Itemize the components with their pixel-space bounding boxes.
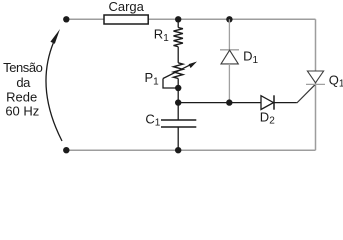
label Tensão da Rede 60 Hz	[3, 60, 42, 118]
node top-left	[63, 16, 69, 22]
wire gate line from junction to D2	[178, 102, 262, 104]
wire P1 wiper return bracket	[163, 79, 178, 89]
wire gate diagonal to Q1	[297, 84, 316, 103]
wire C1 top lead	[177, 103, 179, 120]
wire P1 bottom lead	[177, 79, 179, 103]
diode D1 triangle	[221, 50, 238, 64]
capacitor C1	[161, 120, 196, 127]
node top of D1 branch	[226, 16, 232, 22]
diode D1 cathode bar	[220, 49, 239, 51]
AC source arrow (Tensão da Rede)	[46, 29, 62, 141]
wire C1 bottom lead	[177, 127, 179, 150]
node bottom-left	[63, 147, 69, 153]
svg-text:da: da	[16, 75, 31, 90]
svg-text:D2: D2	[260, 110, 275, 127]
svg-text:60 Hz: 60 Hz	[5, 103, 39, 118]
potentiometer P1 wiper arrow	[163, 62, 197, 79]
wire top rail	[66, 18, 315, 20]
thyristor Q1 cathode bar	[306, 83, 325, 85]
wire right edge (Q1 branch)	[315, 19, 317, 150]
svg-text:Carga: Carga	[108, 0, 144, 14]
wire D1 top lead	[228, 19, 230, 50]
load resistor Carga (box)	[104, 15, 148, 24]
svg-text:Tensão: Tensão	[3, 60, 42, 75]
wire R1 branch top lead	[177, 19, 179, 27]
thyristor Q1 triangle	[307, 71, 323, 83]
wire D1 bottom lead	[228, 64, 230, 103]
wire bottom rail	[66, 149, 315, 151]
wire between R1 and P1	[177, 47, 179, 63]
svg-text:P1: P1	[145, 70, 160, 87]
node D1 bottom junction	[226, 99, 232, 105]
potentiometer P1 (zigzag)	[174, 63, 183, 79]
svg-text:C1: C1	[145, 111, 160, 128]
diode D2 cathode bar	[273, 95, 275, 109]
svg-text:Q1: Q1	[329, 72, 343, 89]
node P1 wiper junction	[175, 85, 181, 91]
diode D2 triangle	[261, 96, 274, 110]
node top of R1 branch	[175, 16, 181, 22]
node C1 to bottom rail	[175, 147, 181, 153]
node gate wire junction	[175, 99, 181, 105]
svg-text:D1: D1	[243, 48, 258, 66]
svg-text:R1: R1	[154, 27, 169, 44]
wire D2 to gate bend	[274, 102, 297, 104]
svg-text:Rede: Rede	[6, 89, 37, 104]
resistor R1	[174, 28, 183, 47]
